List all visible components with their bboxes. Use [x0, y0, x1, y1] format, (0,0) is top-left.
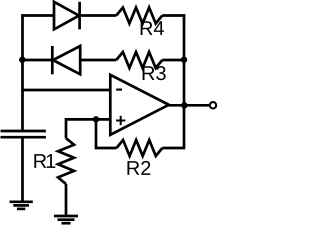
wire: R4 to right rail corner	[162, 14, 185, 17]
label R1	[34, 154, 55, 168]
junction: output node on right rail	[181, 102, 187, 108]
node: output terminal	[210, 102, 216, 108]
wire: R2 left branch down from non-inverting node	[96, 119, 117, 148]
op-amp U1	[110, 75, 169, 135]
wire: R3 to right rail	[162, 59, 184, 62]
junction: non-inverting input / R2 node	[93, 116, 99, 122]
wire: R1 bottom lead to ground	[65, 184, 68, 216]
wire: left vertical rail	[21, 14, 24, 131]
wire: non-inverting input row from R1 corner to op-amp	[66, 119, 110, 138]
resistor R4	[116, 8, 162, 24]
wire: top row from left rail to diode 1 anode	[21, 14, 54, 17]
ground: below R1	[54, 216, 78, 223]
resistor R3	[116, 52, 162, 68]
label R2	[127, 161, 150, 175]
capacitor C1	[1, 131, 46, 137]
label R3	[143, 66, 166, 80]
ground: below capacitor	[10, 202, 33, 209]
diode D2 (pointing left)	[52, 46, 80, 74]
resistor R1 (vertical)	[58, 138, 74, 184]
wire: diode 2 anode to R3	[80, 59, 116, 62]
wire: capacitor bottom lead to ground	[21, 137, 24, 202]
diode D1 (pointing right)	[54, 2, 80, 30]
wire: R2 right lead to right rail	[162, 147, 185, 150]
label R4	[141, 21, 164, 35]
wire: row 2 from left rail to diode 2 cathode bar	[21, 59, 52, 62]
wire: inverting input from left rail to op-amp	[21, 89, 110, 92]
junction: left rail / diode 2 node	[19, 57, 25, 63]
resistor R2	[117, 140, 163, 156]
wire: diode 1 cathode to R4	[80, 14, 117, 17]
wire: right vertical rail	[183, 14, 186, 148]
junction: right rail / R3 node	[181, 57, 187, 63]
wire: op-amp output to terminal	[169, 104, 209, 107]
